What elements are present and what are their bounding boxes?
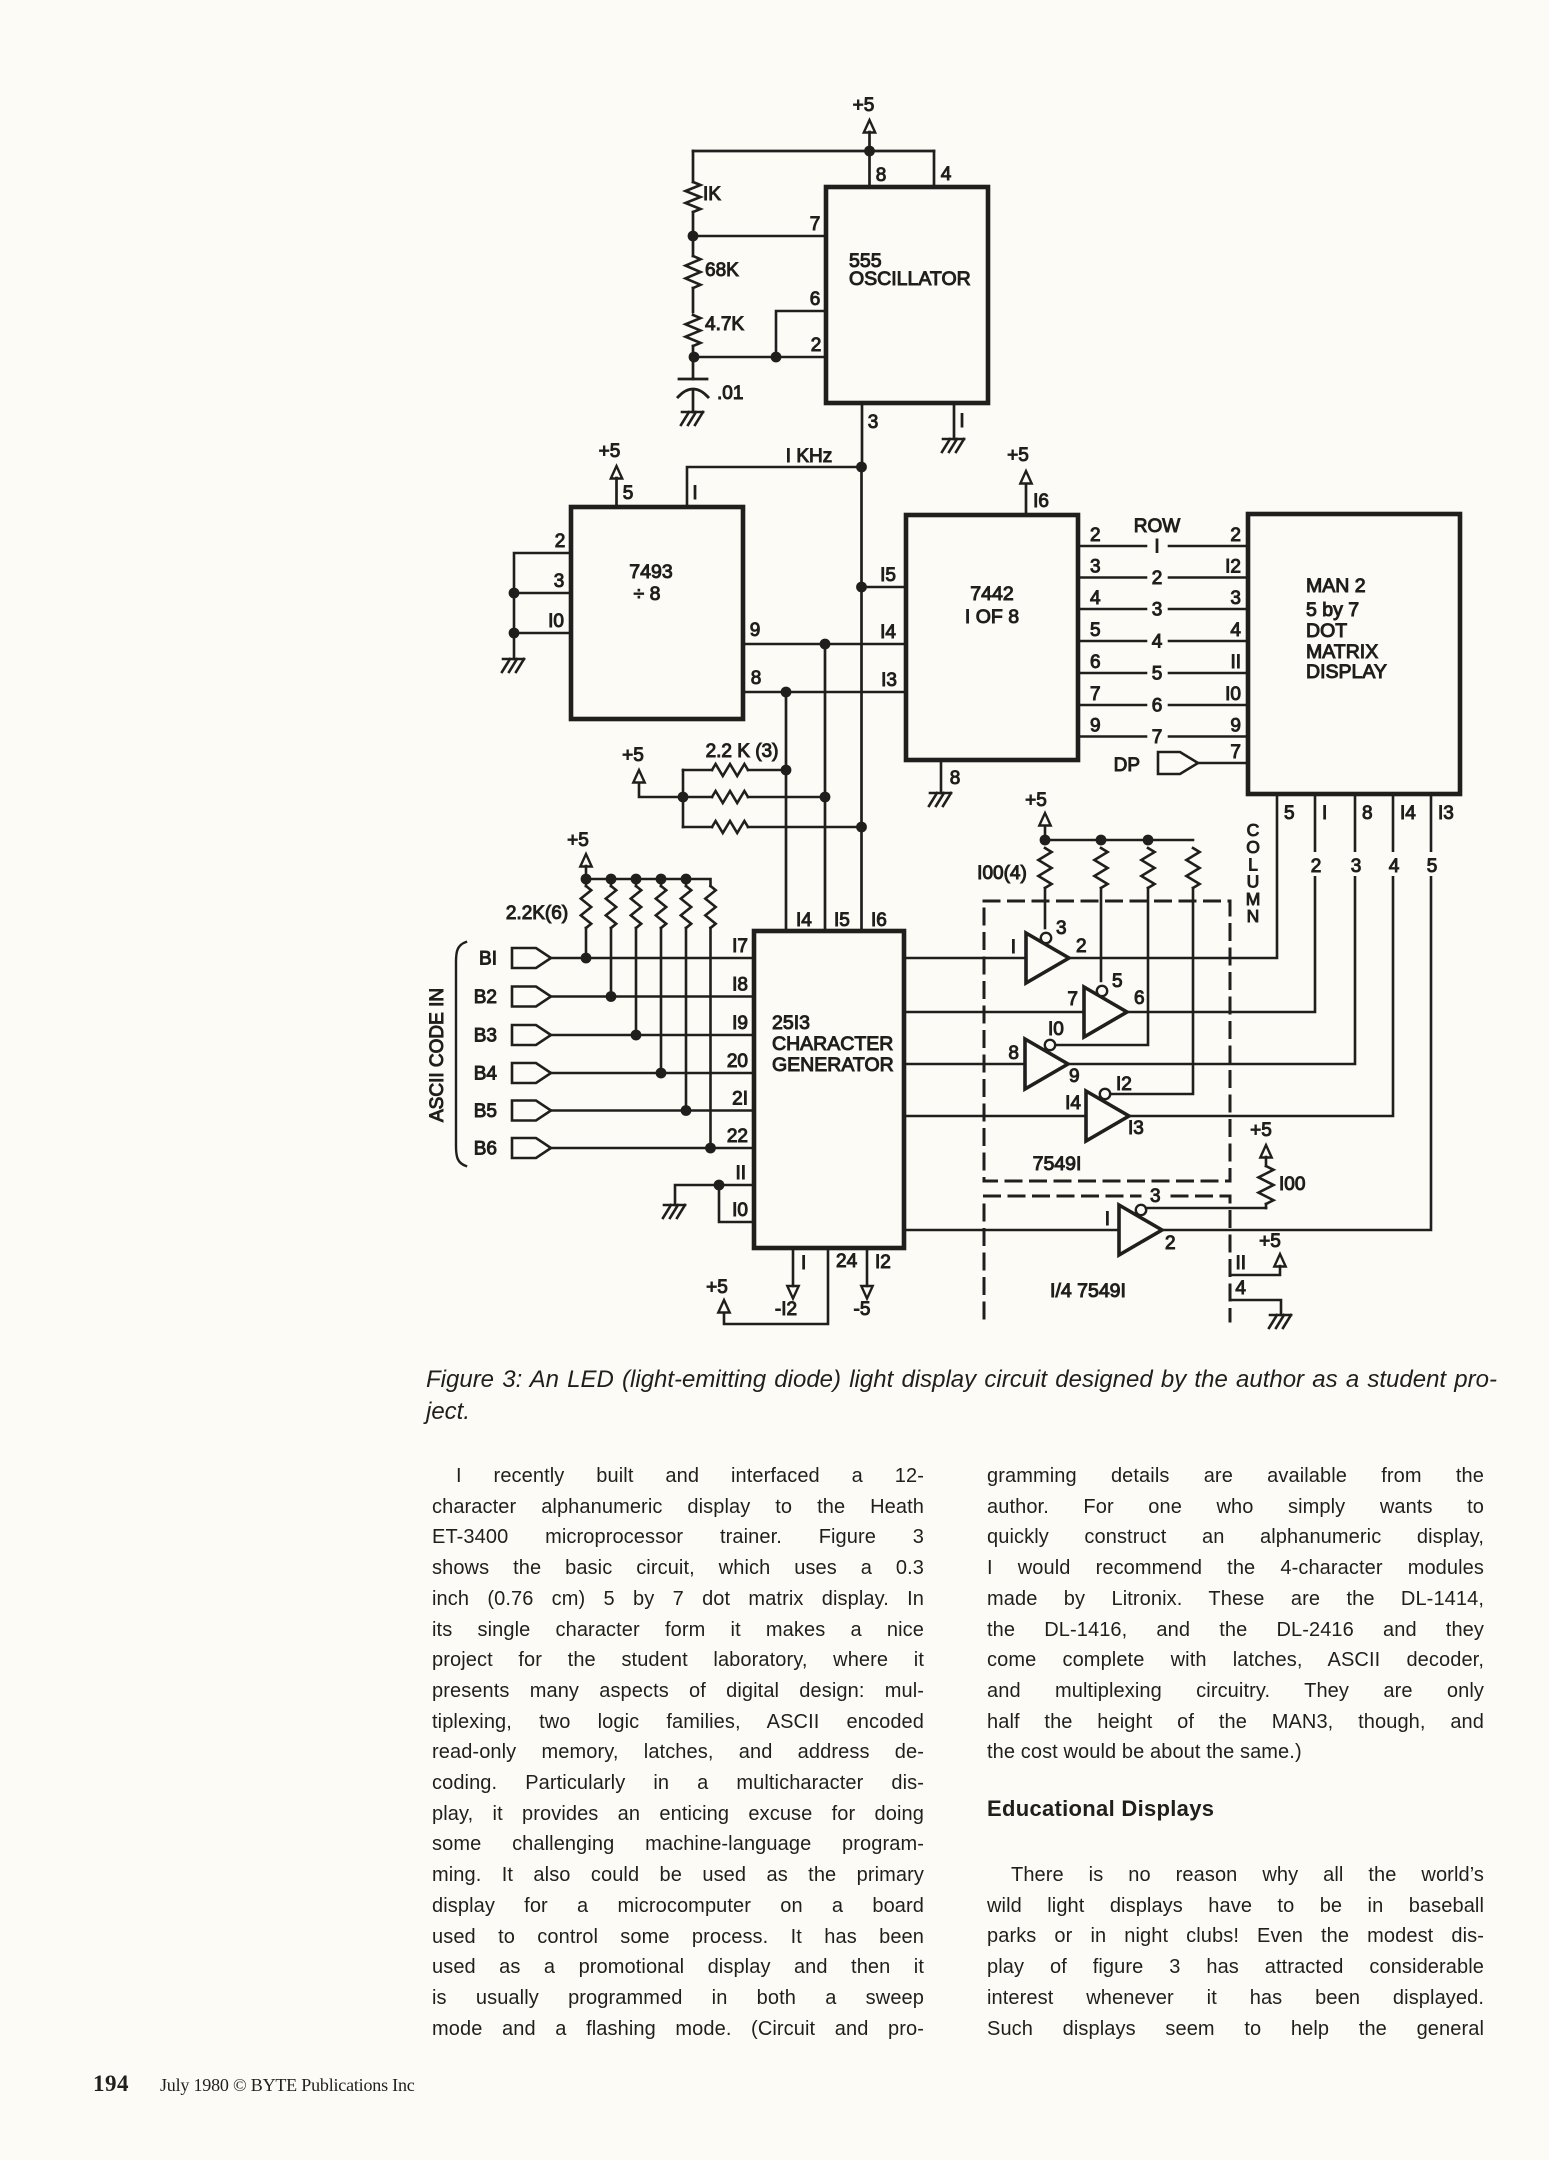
resistor R9 2.2K [635, 879, 638, 886]
svg-text:I2: I2 [875, 1252, 891, 1273]
junction 1KHz / 555 pin3 line [856, 462, 867, 473]
svg-text:DP: DP [1114, 755, 1140, 776]
svg-text:7: 7 [1230, 742, 1241, 763]
resistor R5 2.2K row2 [683, 796, 712, 799]
svg-text:7: 7 [1067, 989, 1078, 1010]
svg-text:2.2 K (3): 2.2 K (3) [706, 741, 779, 762]
wire 7493 pin 3 [514, 592, 571, 595]
node junction R3/C1/pin2 [689, 352, 700, 363]
svg-text:I/4 7549I: I/4 7549I [1050, 1280, 1126, 1302]
svg-text:4: 4 [1389, 856, 1400, 877]
display DS1 MAN 2 dot matrix box [1248, 514, 1460, 794]
svg-text:5: 5 [1090, 620, 1101, 641]
resistor R4 lead to net A [748, 769, 786, 772]
svg-text:ROW: ROW [1134, 516, 1181, 537]
column 3 number [1346, 852, 1364, 876]
svg-text:I6: I6 [1033, 491, 1049, 512]
wire 555 pin 1 to ground [953, 403, 956, 439]
svg-text:3: 3 [1056, 918, 1067, 939]
column 2 number [1306, 852, 1324, 876]
rail 2.2K(6) [586, 879, 711, 886]
wire 2513 pin 1 to -12 [792, 1248, 795, 1286]
net 1KHz wire to 7493 pin 1 [687, 467, 861, 507]
svg-text:7: 7 [810, 214, 821, 235]
svg-text:6: 6 [810, 289, 821, 310]
junction bus/pin3 [509, 588, 520, 599]
wire column 3 (MAN2 pin 8) [1069, 794, 1355, 1064]
svg-text:I3: I3 [1128, 1118, 1144, 1139]
svg-text:4: 4 [1090, 588, 1101, 609]
svg-text:5: 5 [623, 483, 634, 504]
svg-text:I5: I5 [834, 910, 850, 931]
svg-text:7: 7 [1152, 727, 1163, 748]
svg-text:7442: 7442 [970, 583, 1013, 605]
wire 2513 pin 11 to ground [675, 1185, 754, 1205]
resistor R10 2.2K [660, 879, 663, 886]
junction R9/B3 [631, 1030, 642, 1041]
svg-text:2: 2 [811, 335, 822, 356]
svg-text:-I2: -I2 [775, 1299, 797, 1320]
junction R4/net A [781, 765, 792, 776]
wire 2513 pin6 to U5c input [904, 1063, 1025, 1066]
wire row 5 (7442 pin 6 to MAN2 pin 11) [1078, 672, 1146, 675]
junction R7/B1 [581, 953, 592, 964]
svg-text:+5: +5 [622, 745, 644, 766]
svg-text:2: 2 [1090, 525, 1101, 546]
svg-text:+5: +5 [1025, 790, 1047, 811]
wire row 7 (7442 pin 9 to MAN2 pin 9) [1078, 735, 1146, 738]
svg-text:+5: +5 [706, 1277, 728, 1298]
wire 2513 pin8 to U5a input [904, 957, 1026, 960]
chip U2 7493 divide-by-8 box [571, 507, 743, 719]
resistor R11 2.2K [685, 879, 688, 886]
buffer U5d enable circle pin 12 [1100, 1089, 1110, 1099]
svg-text:2: 2 [1230, 525, 1241, 546]
body text right column part 2 [987, 1860, 1484, 2044]
wire 555 pin 2 [694, 356, 826, 359]
body text right column part 1 [987, 1461, 1484, 1768]
svg-text:I7: I7 [732, 936, 748, 957]
bracket ASCII CODE IN [456, 942, 466, 1166]
resistor network 100(4) +5 feed [1044, 826, 1047, 840]
svg-text:I: I [959, 411, 964, 432]
chip U3 7442 1-of-8 box [906, 515, 1078, 760]
svg-text:B3: B3 [474, 1026, 497, 1047]
junction +5 rail / pin 8 [864, 146, 875, 157]
svg-text:I: I [1105, 1209, 1110, 1230]
svg-text:I: I [801, 1253, 806, 1274]
svg-text:9: 9 [750, 620, 761, 641]
junction rail/R10 [656, 874, 667, 885]
ground (C1) [681, 412, 703, 425]
power +5 (7442) [1025, 484, 1028, 515]
svg-text:+5: +5 [1259, 1231, 1281, 1252]
svg-text:+5: +5 [853, 95, 875, 116]
wire U6 pin3 to R17 [1146, 1207, 1266, 1210]
svg-text:4.7K: 4.7K [705, 314, 744, 335]
chip U6 1/4 75491 dashed box [984, 1196, 1140, 1318]
wire row 2 (7442 pin 3 to MAN2 pin 12) [1078, 576, 1146, 579]
svg-text:4: 4 [941, 164, 952, 185]
buffer U5a enable circle pin 3 [1041, 933, 1051, 943]
wire row 3 (7442 pin 4 to MAN2 pin 3) [1078, 608, 1146, 611]
svg-text:7: 7 [1090, 684, 1101, 705]
junction 2.2K(3) feed [678, 792, 689, 803]
svg-text:BI: BI [479, 949, 497, 970]
svg-text:I0: I0 [548, 611, 564, 632]
op-amp U1 555 oscillator box [826, 187, 988, 403]
wire row 4 (7442 pin 5 to MAN2 pin 4) [1078, 640, 1146, 643]
svg-text:I: I [1154, 537, 1159, 558]
column 4 number [1384, 852, 1402, 876]
junction R11/B5 [681, 1105, 692, 1116]
rail 100(4) [1045, 839, 1193, 842]
column 5 number [1422, 852, 1440, 876]
arrow -5 supply [861, 1286, 872, 1299]
svg-text:I9: I9 [732, 1013, 748, 1034]
chip U4 2513 character generator box [754, 931, 904, 1248]
svg-text:3: 3 [1230, 588, 1241, 609]
svg-text:I0: I0 [732, 1200, 748, 1221]
wire 2513 pin7 to U5b input [904, 1011, 1084, 1014]
resistor R8 2.2K [610, 879, 613, 886]
wire B1 to 2513 pin 17 [551, 957, 754, 960]
buffer U6 enable circle pin 3 [1136, 1205, 1146, 1215]
junction rail/R13 [1040, 835, 1051, 846]
resistor network 2.2K(3) +5 feed [639, 783, 683, 797]
page footer [93, 2071, 415, 2097]
svg-text:3: 3 [1090, 557, 1101, 578]
svg-text:GENERATOR: GENERATOR [772, 1054, 894, 1076]
junction R12/B6 [705, 1143, 716, 1154]
junction rail/R8 [606, 874, 617, 885]
svg-text:+5: +5 [1007, 445, 1029, 466]
svg-text:9: 9 [1090, 716, 1101, 737]
wire net A vertical (to 2513 pin 14) [785, 692, 788, 931]
wire 2513 pin 10 [719, 1185, 754, 1222]
svg-text:I3: I3 [881, 670, 897, 691]
wire row 1 (7442 pin 2 to MAN2 pin 2) [1078, 545, 1146, 548]
junction pin9 wire / net B [820, 639, 831, 650]
svg-text:20: 20 [727, 1051, 748, 1072]
wire net B vertical (to 2513 pin 15) [824, 644, 827, 931]
svg-text:I4: I4 [880, 622, 896, 643]
svg-text:II: II [735, 1163, 746, 1184]
ground (7442) [929, 793, 951, 806]
svg-text:8: 8 [950, 768, 961, 789]
svg-text:I4: I4 [796, 910, 812, 931]
svg-text:÷ 8: ÷ 8 [634, 583, 661, 605]
wire column 1 (MAN2 pin 5) [1070, 794, 1277, 958]
wire column 4 (MAN2 pin 14) [1128, 794, 1393, 1116]
svg-text:I: I [692, 483, 697, 504]
wire 75491 pin 4 to ground [1231, 1300, 1281, 1315]
buffer U6 triangle [1119, 1205, 1162, 1255]
resistor R1 1K [692, 151, 695, 182]
svg-text:I6: I6 [871, 910, 887, 931]
svg-text:5: 5 [1427, 856, 1438, 877]
svg-text:5 by 7: 5 by 7 [1306, 599, 1359, 621]
wire 7493 pins 2,3,10 bus to ground [514, 553, 571, 659]
junction R6/net C [856, 822, 867, 833]
svg-text:MATRIX: MATRIX [1306, 641, 1378, 663]
svg-text:2: 2 [1152, 568, 1163, 589]
wire 555 pin 3 [861, 403, 864, 467]
arrow -12 supply [787, 1286, 798, 1299]
svg-text:2: 2 [1076, 936, 1087, 957]
resistor R7 2.2K [585, 879, 588, 886]
svg-text:I2: I2 [1225, 557, 1241, 578]
svg-text:B2: B2 [474, 987, 497, 1008]
wire 7493 pin 9 to 7442 pin 14 [743, 643, 906, 646]
wire B2 to 2513 pin 18 [551, 995, 754, 998]
svg-text:I00(4): I00(4) [977, 863, 1027, 884]
svg-text:I5: I5 [880, 565, 896, 586]
svg-text:3: 3 [554, 571, 565, 592]
svg-text:3: 3 [1150, 1186, 1161, 1207]
svg-text:I OF 8: I OF 8 [965, 606, 1019, 628]
ground (7493) [502, 659, 524, 672]
svg-text:I0: I0 [1048, 1019, 1064, 1040]
svg-text:2: 2 [1311, 856, 1322, 877]
resistor R12 2.2K [705, 886, 715, 928]
svg-text:2: 2 [555, 531, 566, 552]
svg-text:B6: B6 [474, 1139, 497, 1160]
wire 555 pin 8 [868, 151, 871, 187]
svg-text:6: 6 [1134, 988, 1145, 1009]
wire B5 to 2513 pin 21 [551, 1109, 754, 1112]
buffer U5c enable circle pin 10 [1045, 1040, 1055, 1050]
svg-text:-5: -5 [854, 1299, 871, 1320]
resistor R6 2.2K row3 [683, 826, 712, 829]
capacitor C1 .01 [692, 357, 695, 379]
resistor R3 4.7K [686, 315, 701, 346]
svg-text:B5: B5 [474, 1101, 497, 1122]
svg-text:3: 3 [1152, 600, 1163, 621]
svg-text:IK: IK [703, 184, 721, 205]
svg-text:68K: 68K [705, 260, 739, 281]
svg-text:I4: I4 [1065, 1093, 1081, 1114]
svg-text:8: 8 [1362, 803, 1373, 824]
wire 7493 pin 8 to 7442 pin 13 [743, 691, 906, 694]
wire 2513 pin5 to U5d input [904, 1115, 1086, 1118]
power +5 (555) [868, 132, 871, 151]
svg-text:II: II [1230, 652, 1241, 673]
svg-text:I8: I8 [732, 975, 748, 996]
junction net C / 7442 pin 15 [856, 582, 867, 593]
buffer U5b triangle [1084, 987, 1127, 1037]
svg-text:DOT: DOT [1306, 620, 1347, 642]
resistor R16 100 [1186, 848, 1199, 888]
wire 7493 pin 10 [514, 632, 571, 635]
chip U5 75491 dashed box [984, 901, 1230, 1181]
wire row 6 (7442 pin 7 to MAN2 pin 10) [1078, 704, 1146, 707]
body text left column [432, 1461, 924, 2044]
junction R5/net B [820, 792, 831, 803]
svg-text:8: 8 [751, 668, 762, 689]
svg-text:8: 8 [1008, 1043, 1019, 1064]
junction rail/R14 [1096, 835, 1107, 846]
resistor R15 100 [1141, 848, 1154, 888]
ground (2513 pin 11) [663, 1205, 685, 1218]
svg-text:4: 4 [1235, 1278, 1246, 1299]
svg-text:.01: .01 [717, 383, 743, 404]
svg-text:II: II [1235, 1253, 1246, 1274]
svg-text:+5: +5 [567, 830, 589, 851]
junction pin8 wire / net A [781, 687, 792, 698]
svg-text:+5: +5 [599, 441, 621, 462]
svg-text:I: I [1011, 937, 1016, 958]
junction pin6/pin2 [771, 352, 782, 363]
svg-text:6: 6 [1090, 652, 1101, 673]
wire B6 to 2513 pin 22 [551, 1147, 754, 1150]
node junction R1/R2/pin7 [688, 231, 699, 242]
wire 2513 pin 12 to -5 [866, 1248, 869, 1286]
svg-text:22: 22 [727, 1126, 748, 1147]
svg-text:2I: 2I [732, 1089, 748, 1110]
resistor R4 2.2K row1 [683, 769, 712, 772]
svg-text:25I3: 25I3 [772, 1012, 810, 1034]
svg-text:I00: I00 [1279, 1174, 1305, 1195]
svg-text:6: 6 [1152, 696, 1163, 717]
svg-text:3: 3 [1351, 856, 1362, 877]
wire 555 pin 6 jog [776, 311, 826, 357]
wire column 5 (MAN2 pin 13) [1161, 794, 1431, 1230]
junction rail/R9 [631, 874, 642, 885]
wire +5 rail to 555 pins 8 and 4 [693, 150, 934, 153]
junction rail/R15 [1143, 835, 1154, 846]
svg-text:4: 4 [1230, 620, 1241, 641]
svg-text:8: 8 [876, 165, 887, 186]
wire B3 to 2513 pin 19 [551, 1034, 754, 1037]
junction rail/R7 [581, 874, 592, 885]
wire column 2 (MAN2 pin 1) [1127, 794, 1315, 1012]
svg-text:B4: B4 [474, 1064, 498, 1085]
svg-text:MAN 2: MAN 2 [1306, 575, 1366, 597]
heading Educational Displays [987, 1796, 1214, 1822]
svg-text:7493: 7493 [629, 561, 672, 583]
resistor R17 100 [1259, 1166, 1274, 1204]
ground (75491 pin 4) [1269, 1315, 1291, 1328]
junction bus/pin10 [509, 628, 520, 639]
svg-text:ASCII CODE IN: ASCII CODE IN [427, 988, 448, 1122]
wire DP to MAN2 pin 7 [1198, 762, 1248, 765]
junction R8/B2 [606, 991, 617, 1002]
svg-text:I0: I0 [1225, 684, 1241, 705]
svg-text:CHARACTER: CHARACTER [772, 1033, 893, 1055]
svg-text:5: 5 [1152, 664, 1163, 685]
svg-text:2.2K(6): 2.2K(6) [506, 903, 568, 924]
buffer U5d triangle [1086, 1091, 1129, 1141]
svg-text:5: 5 [1112, 971, 1123, 992]
buffer U5a triangle [1026, 933, 1069, 983]
svg-text:7549I: 7549I [1033, 1153, 1082, 1175]
svg-text:2: 2 [1165, 1233, 1176, 1254]
svg-text:I3: I3 [1438, 803, 1454, 824]
svg-text:3: 3 [868, 412, 879, 433]
ground (555 pin 1) [942, 439, 964, 452]
wire 555 pin 4 [933, 151, 936, 187]
wire 555 pin 7 [693, 235, 826, 238]
resistor R14 100 [1094, 848, 1107, 888]
junction pin11/pin10 [714, 1180, 725, 1191]
arrow +5 supply (pin 24) [718, 1300, 729, 1313]
svg-text:4: 4 [1152, 632, 1163, 653]
power +5 (7493) [615, 478, 618, 507]
junction R10/B4 [656, 1068, 667, 1079]
wire 75491 pin 11 to +5 [1231, 1266, 1280, 1275]
resistor R13 100 [1038, 848, 1051, 888]
wire B4 to 2513 pin 20 [551, 1072, 754, 1075]
svg-text:N: N [1247, 906, 1260, 926]
power +5 (2.2K(6)) [585, 866, 588, 879]
buffer U5c triangle [1025, 1039, 1068, 1089]
wire 2513 pin 24 to +5 [724, 1248, 828, 1324]
svg-text:I4: I4 [1400, 803, 1416, 824]
svg-text:9: 9 [1230, 716, 1241, 737]
svg-text:I KHz: I KHz [786, 446, 832, 467]
svg-text:24: 24 [836, 1251, 858, 1272]
junction rail/R11 [681, 874, 692, 885]
svg-text:OSCILLATOR: OSCILLATOR [849, 268, 971, 290]
svg-text:5: 5 [1284, 803, 1295, 824]
svg-text:I2: I2 [1116, 1074, 1132, 1095]
figure caption [426, 1364, 1497, 1428]
wire 7442 pin 8 to ground [940, 760, 943, 793]
wire 2513 pin4 to U6 input [904, 1229, 1119, 1232]
wire 2.2K(3) riser [682, 770, 685, 827]
svg-text:+5: +5 [1250, 1120, 1272, 1141]
svg-text:DISPLAY: DISPLAY [1306, 661, 1387, 683]
svg-text:9: 9 [1069, 1066, 1080, 1087]
svg-text:I: I [1322, 803, 1327, 824]
resistor R2 68K [692, 236, 695, 256]
wire net C vertical (555 pin3 to 2513 pin 16) [860, 467, 863, 931]
wire 7442 pin 15 [862, 586, 907, 589]
buffer U5b enable circle pin 5 [1097, 986, 1107, 996]
